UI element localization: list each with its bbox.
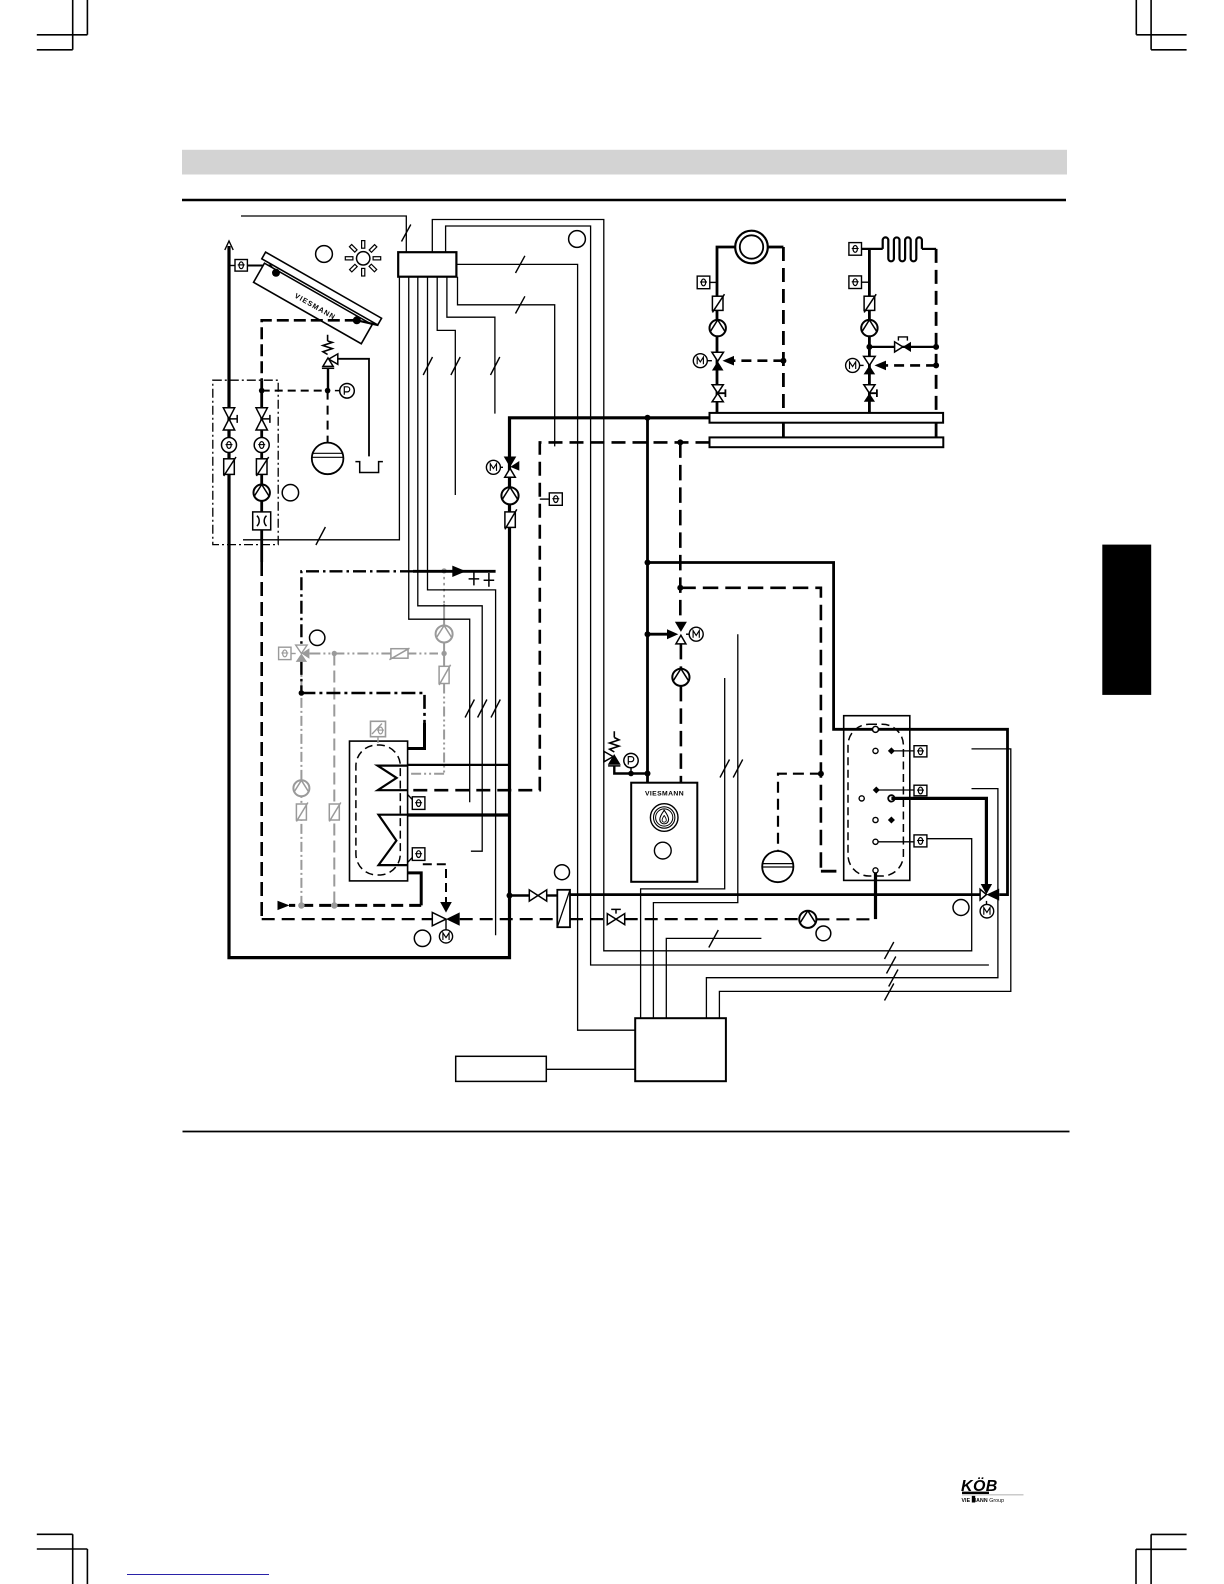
wire boiler feed branch: [510, 894, 530, 896]
check valve heating riser: [505, 512, 515, 528]
consumer branch tick 2: [484, 573, 495, 587]
radiator circuit symbol (double circle): [735, 231, 768, 264]
cable c9 controller to DHW sensor 3: [432, 220, 971, 951]
pressure gauge boiler: [624, 753, 638, 767]
cable DHW d2: [706, 789, 998, 1019]
cable boiler L1: [641, 678, 725, 1018]
pump boiler circuit: [672, 669, 689, 686]
KOB logo: [961, 1476, 1024, 1504]
node dot on return: [780, 358, 786, 364]
arrow to consumers: [452, 566, 466, 577]
valve underfloor shut-off with cap: [864, 385, 875, 394]
wire solar return run (thick dashed): [289, 904, 421, 907]
sensor collector (theta box): [235, 260, 247, 272]
break on boiler cable L1: [720, 760, 730, 778]
manifold return bar: [710, 437, 944, 447]
wire to safety group (dashed): [262, 390, 325, 392]
solar station frame (dash-dot box): [213, 380, 278, 544]
wire solar return pipe B lower (dashed): [260, 562, 263, 919]
boiler body: [631, 783, 697, 882]
port node diamond lower: [888, 816, 895, 823]
position balloon solar valve: [414, 930, 430, 946]
valve shut-off with cap on return: [607, 909, 624, 924]
valve DHW 3-way: [980, 889, 986, 900]
position balloon heat exchanger: [555, 865, 570, 880]
node dot bypass upper: [866, 344, 872, 350]
crop mark top-right: [1136, 0, 1186, 50]
wire DHW loading flow (thick): [648, 563, 1008, 895]
node gray dot at riser: [441, 651, 446, 656]
arrow into DHW valve: [981, 884, 992, 894]
title bar (gray): [182, 150, 1067, 175]
node gray dot bottom mid: [332, 903, 337, 908]
wire consumers header solid part with arrow: [413, 570, 496, 573]
valve shut-off right line: [256, 408, 270, 430]
position balloon DHW pump: [816, 926, 831, 941]
wire consumers header (dash-dot black): [301, 571, 413, 645]
wire to expansion vessel (dashed): [327, 391, 329, 443]
safety valve solar: body: [322, 354, 338, 368]
svg-text:VIE MANN Group: VIE MANN Group: [962, 1498, 1005, 1504]
crop mark bottom-right: [1136, 1534, 1187, 1584]
node gray dot: [332, 651, 337, 656]
check valve radiator: [712, 296, 723, 310]
cable boiler L2: [653, 634, 737, 1018]
crop mark top-left: [37, 0, 88, 50]
valve bypass regulating: [895, 342, 903, 352]
consumer branch tick 1: [469, 571, 480, 585]
cable c2 controller to gray circuit: [409, 277, 470, 803]
cable c3 controller to buffer sensors: [418, 277, 482, 852]
boiler emblem: [650, 804, 678, 832]
check valve underfloor: [864, 296, 875, 310]
balancing valve left: [224, 457, 236, 476]
actuator M boiler valve: [686, 633, 689, 635]
break on c8: [516, 256, 525, 273]
node junction boiler feed (dot): [507, 893, 513, 899]
blue footer line: [127, 1574, 269, 1576]
valve gray 3-way: [296, 645, 307, 653]
wire safety valve to junction: [327, 369, 329, 391]
wire manifold bar link left: [782, 423, 785, 438]
position balloon DHW valve: [953, 900, 969, 916]
cable remote to control unit: [546, 1068, 635, 1070]
DHW tank outer body: [844, 716, 910, 881]
break on c4 drop: [491, 700, 500, 718]
wire solar return pipe B (dashed from collector): [262, 320, 357, 380]
break on boiler cable L3: [709, 930, 719, 948]
node collector outlet (dot): [353, 316, 361, 324]
gray riser to buffer tank: [443, 571, 445, 604]
controller solar (manifold box top): [398, 252, 456, 277]
balancing valve right: [256, 457, 268, 476]
coil lower heat exchanger: [379, 815, 408, 865]
wire safety blow-off line to drain: [338, 359, 369, 457]
wire DHW flow to valve (thick): [891, 798, 986, 884]
solar collector (tilted panel): [250, 252, 382, 346]
node junction dot: [299, 690, 305, 696]
manifold flow bar: [710, 413, 944, 423]
control unit boiler: [635, 1018, 726, 1081]
check valve gray horizontal: [391, 649, 408, 659]
safety valve solar: spring: [323, 335, 332, 355]
node collector inlet (dot): [272, 269, 280, 277]
pump gray circuit upper: [436, 626, 453, 643]
break on c7: [516, 296, 525, 313]
valve shut-off left line: [223, 408, 237, 430]
port DHW mid left: [859, 796, 864, 801]
cable DHW d1: [719, 749, 1010, 1018]
wire mixing bypass (dashed with arrow): [886, 364, 936, 367]
cable c11 controller to collector sensor area: [241, 216, 406, 252]
wire solar flow pipe A (collector to bottom run, up to heating manifold): [229, 246, 710, 958]
node junction dot heating return: [677, 439, 683, 445]
cable c10 controller: [446, 226, 989, 965]
cable c5 controller: [437, 277, 455, 495]
sensor on DHW circulation line (theta box): [549, 493, 562, 505]
sensor underfloor 1 (theta box): [849, 243, 862, 256]
buffer tank outer body: [350, 741, 408, 881]
node junction solar return / safety line (dot): [259, 388, 265, 394]
wire DHW loading pipe across tank top: [844, 728, 910, 731]
wire main return line (dashed) with shut-off: [570, 918, 607, 920]
cable c1 controller left: [243, 277, 399, 540]
wire black dash-dot below gray valve: [300, 662, 302, 693]
break on c9 tail: [885, 942, 894, 959]
port node diamond mid: [873, 786, 880, 793]
cable c8 controller to boiler control unit: [456, 264, 635, 1030]
break on d1 tail: [885, 984, 894, 1001]
position balloon (empty) near collector: [316, 246, 333, 263]
wire to DHW sensor 2: [876, 789, 914, 791]
valve boiler return 3-way: [675, 622, 687, 632]
node dot P gauge: [628, 771, 634, 777]
cable c7 controller: [458, 277, 555, 447]
buffer tank inner shell (dashed): [356, 745, 400, 875]
wire DHW tank return branch (dashed): [680, 588, 821, 871]
pump DHW return: [799, 911, 816, 928]
wire gray horizontal (dash-dot-dot): [309, 653, 438, 655]
svg-text:VIESMANN: VIESMANN: [645, 791, 684, 798]
node junction safety/pressure (dot): [325, 388, 331, 394]
actuator M underfloor valve: [860, 364, 864, 366]
node dot at manifold line: [645, 415, 651, 421]
expansion vessel solar: [312, 443, 344, 475]
break on c11: [402, 225, 411, 242]
cable break slashes: [316, 225, 898, 1001]
expansion vessel boiler: [762, 851, 793, 882]
break on c3 drop: [478, 700, 487, 718]
port DHW bottom: [873, 868, 878, 873]
drain funnel: [355, 462, 382, 473]
valve radiator shut-off with cap: [712, 385, 725, 402]
sensor DHW 1 (theta box): [914, 746, 927, 757]
wire bypass line: [869, 346, 936, 348]
wire buffer bottom elbow (thick): [408, 873, 422, 906]
wire boiler flow riser: [646, 418, 649, 783]
cable c6 controller: [447, 277, 495, 414]
port DHW lower-mid: [873, 817, 878, 822]
node dot DHW return branch: [677, 585, 683, 591]
port DHW flow outlet: [888, 795, 894, 801]
flow meter solar: [253, 512, 271, 530]
DHW tank inner shell (dashed): [848, 724, 903, 876]
wire DHW bottom port to return: [874, 873, 877, 919]
wire branch to boiler mixing valve with arrow: [648, 633, 668, 636]
sun symbol: [338, 233, 388, 283]
vent arrow at top of solar flow pipe: [225, 241, 233, 250]
remote control unit: [456, 1056, 547, 1081]
wire heating return from manifold to buffer top (dashed): [408, 442, 710, 790]
thermometer right: [254, 438, 269, 453]
wire cold return main (long dashed): [262, 918, 433, 920]
node gray dot on consumers line: [441, 568, 446, 573]
wire radiator flow: [717, 247, 735, 413]
valve at heat exchanger: [529, 890, 546, 901]
sensor buffer top (gray box): [371, 721, 386, 743]
pump solar: [254, 485, 270, 501]
pump underfloor: [861, 320, 877, 336]
crop mark bottom-left: [37, 1534, 88, 1584]
pump radiator: [710, 320, 726, 336]
position balloon solar station: [282, 485, 298, 501]
underfloor heating coil symbol: [883, 237, 922, 261]
position balloon gray circuit: [310, 630, 325, 645]
valve solar return 3-way: [432, 912, 446, 925]
valve radiator mixing 3-way: [712, 352, 724, 361]
port DHW sensor3: [873, 839, 878, 844]
wire underfloor flow: [862, 248, 883, 250]
cable c4 controller to solar valve: [428, 277, 496, 936]
sensor gray (theta box): [279, 647, 291, 659]
wire underfloor return (dashed drop): [922, 248, 936, 250]
actuator M DHW valve: [986, 901, 988, 905]
wire collector outlet stub: [357, 320, 379, 325]
break on c10 tail: [887, 957, 896, 974]
break on boiler cable L2: [733, 760, 743, 778]
port DHW upper: [873, 748, 878, 753]
port DHW top: [873, 726, 879, 732]
pump gray lower: [293, 780, 309, 796]
safety valve boiler: spring: [610, 731, 619, 752]
actuator M radiator valve: [707, 360, 712, 362]
sensor DHW 2 (theta box): [914, 785, 927, 796]
boiler control knob: [654, 842, 671, 859]
wire sensor to pipe: [229, 265, 235, 267]
arrow into solar mixing valve: [440, 902, 452, 913]
wire safety valve to boiler top: [614, 767, 647, 774]
arrow solar return continuation: [278, 901, 290, 910]
wire manifold bar link right: [935, 423, 938, 438]
node dot bypass right: [933, 344, 939, 350]
break on c2 drop: [465, 700, 474, 718]
wire to DHW sensor 3: [878, 841, 914, 843]
node dot at mixing branch: [645, 631, 651, 637]
sensor DHW 3 (theta box): [914, 835, 927, 847]
bottom rule: [183, 1131, 1070, 1133]
wire gray drop line left (dash-dot): [300, 662, 302, 906]
break on c6 vertical: [491, 357, 500, 375]
node gray circuit end dot mid: [331, 902, 337, 908]
wire radiator return (dashed drop): [768, 246, 784, 249]
break on c5 vertical: [451, 357, 460, 375]
node dot expansion vessel branch: [818, 771, 824, 777]
wire dashed into DHW tank bottom: [821, 870, 876, 873]
plate heat exchanger: [557, 890, 570, 927]
wire buffer upper coil to riser: [408, 764, 510, 766]
wire solar loading pipe elbow into tank: [408, 723, 425, 749]
wire solar return pipe B through station (solid): [260, 380, 263, 562]
check valve gray riser: [439, 666, 449, 683]
wire buffer bottom to mixing valve (dashed): [423, 864, 446, 903]
sensor underfloor 2 (theta box): [849, 276, 862, 289]
port node diamond upper: [888, 747, 895, 754]
wire gray drop line mid (long dash): [333, 654, 335, 906]
wire P gauge stub: [335, 390, 340, 392]
break on d2 tail: [889, 970, 898, 987]
sensor radiator flow (theta box): [697, 276, 710, 289]
break on c4 vertical: [423, 357, 432, 375]
valve underfloor mixing 3-way: [864, 356, 876, 365]
actuator M solar valve: [445, 919, 447, 930]
sensor buffer upper (theta box): [412, 797, 425, 810]
check valve gray left: [296, 804, 306, 820]
check valve gray mid: [329, 804, 339, 820]
safety valve boiler: body: [604, 751, 620, 766]
wire mixing bypass (dashed with arrow): [734, 359, 783, 362]
wire buffer middle port to riser (thick): [408, 813, 510, 816]
wire gray riser to tank: [408, 773, 445, 775]
pump heating circuit on riser: [501, 487, 518, 504]
wire sensor to collector: [247, 266, 276, 273]
node gray dot bottom left: [299, 903, 304, 908]
wire boiler return (dashed vertical): [679, 442, 682, 621]
node dot at DHW branch: [645, 560, 651, 566]
thermometer left: [222, 438, 237, 453]
wire main flow line to DHW valve: [570, 893, 981, 896]
node dot on return: [933, 362, 939, 368]
position balloon controller cables: [569, 231, 586, 248]
valve heating flow 3-way on riser: [504, 457, 517, 468]
wire to DHW sensor 1: [891, 750, 914, 752]
wire to expansion vessel (dashed): [778, 774, 821, 851]
pressure gauge P: [340, 384, 355, 399]
node gray circuit end dot left: [298, 902, 304, 908]
node dot at safety line: [645, 771, 651, 777]
cable boiler L3: [666, 938, 761, 1018]
header rule: [182, 199, 1066, 202]
wire solar loading pipe to buffer top (dash-dot): [301, 693, 424, 723]
sensor buffer lower (theta box): [412, 848, 425, 861]
actuator M heating valve: [501, 466, 504, 468]
break on c1: [316, 527, 326, 545]
coil upper heat exchanger: [378, 766, 408, 791]
section tab (black): [1102, 545, 1151, 695]
